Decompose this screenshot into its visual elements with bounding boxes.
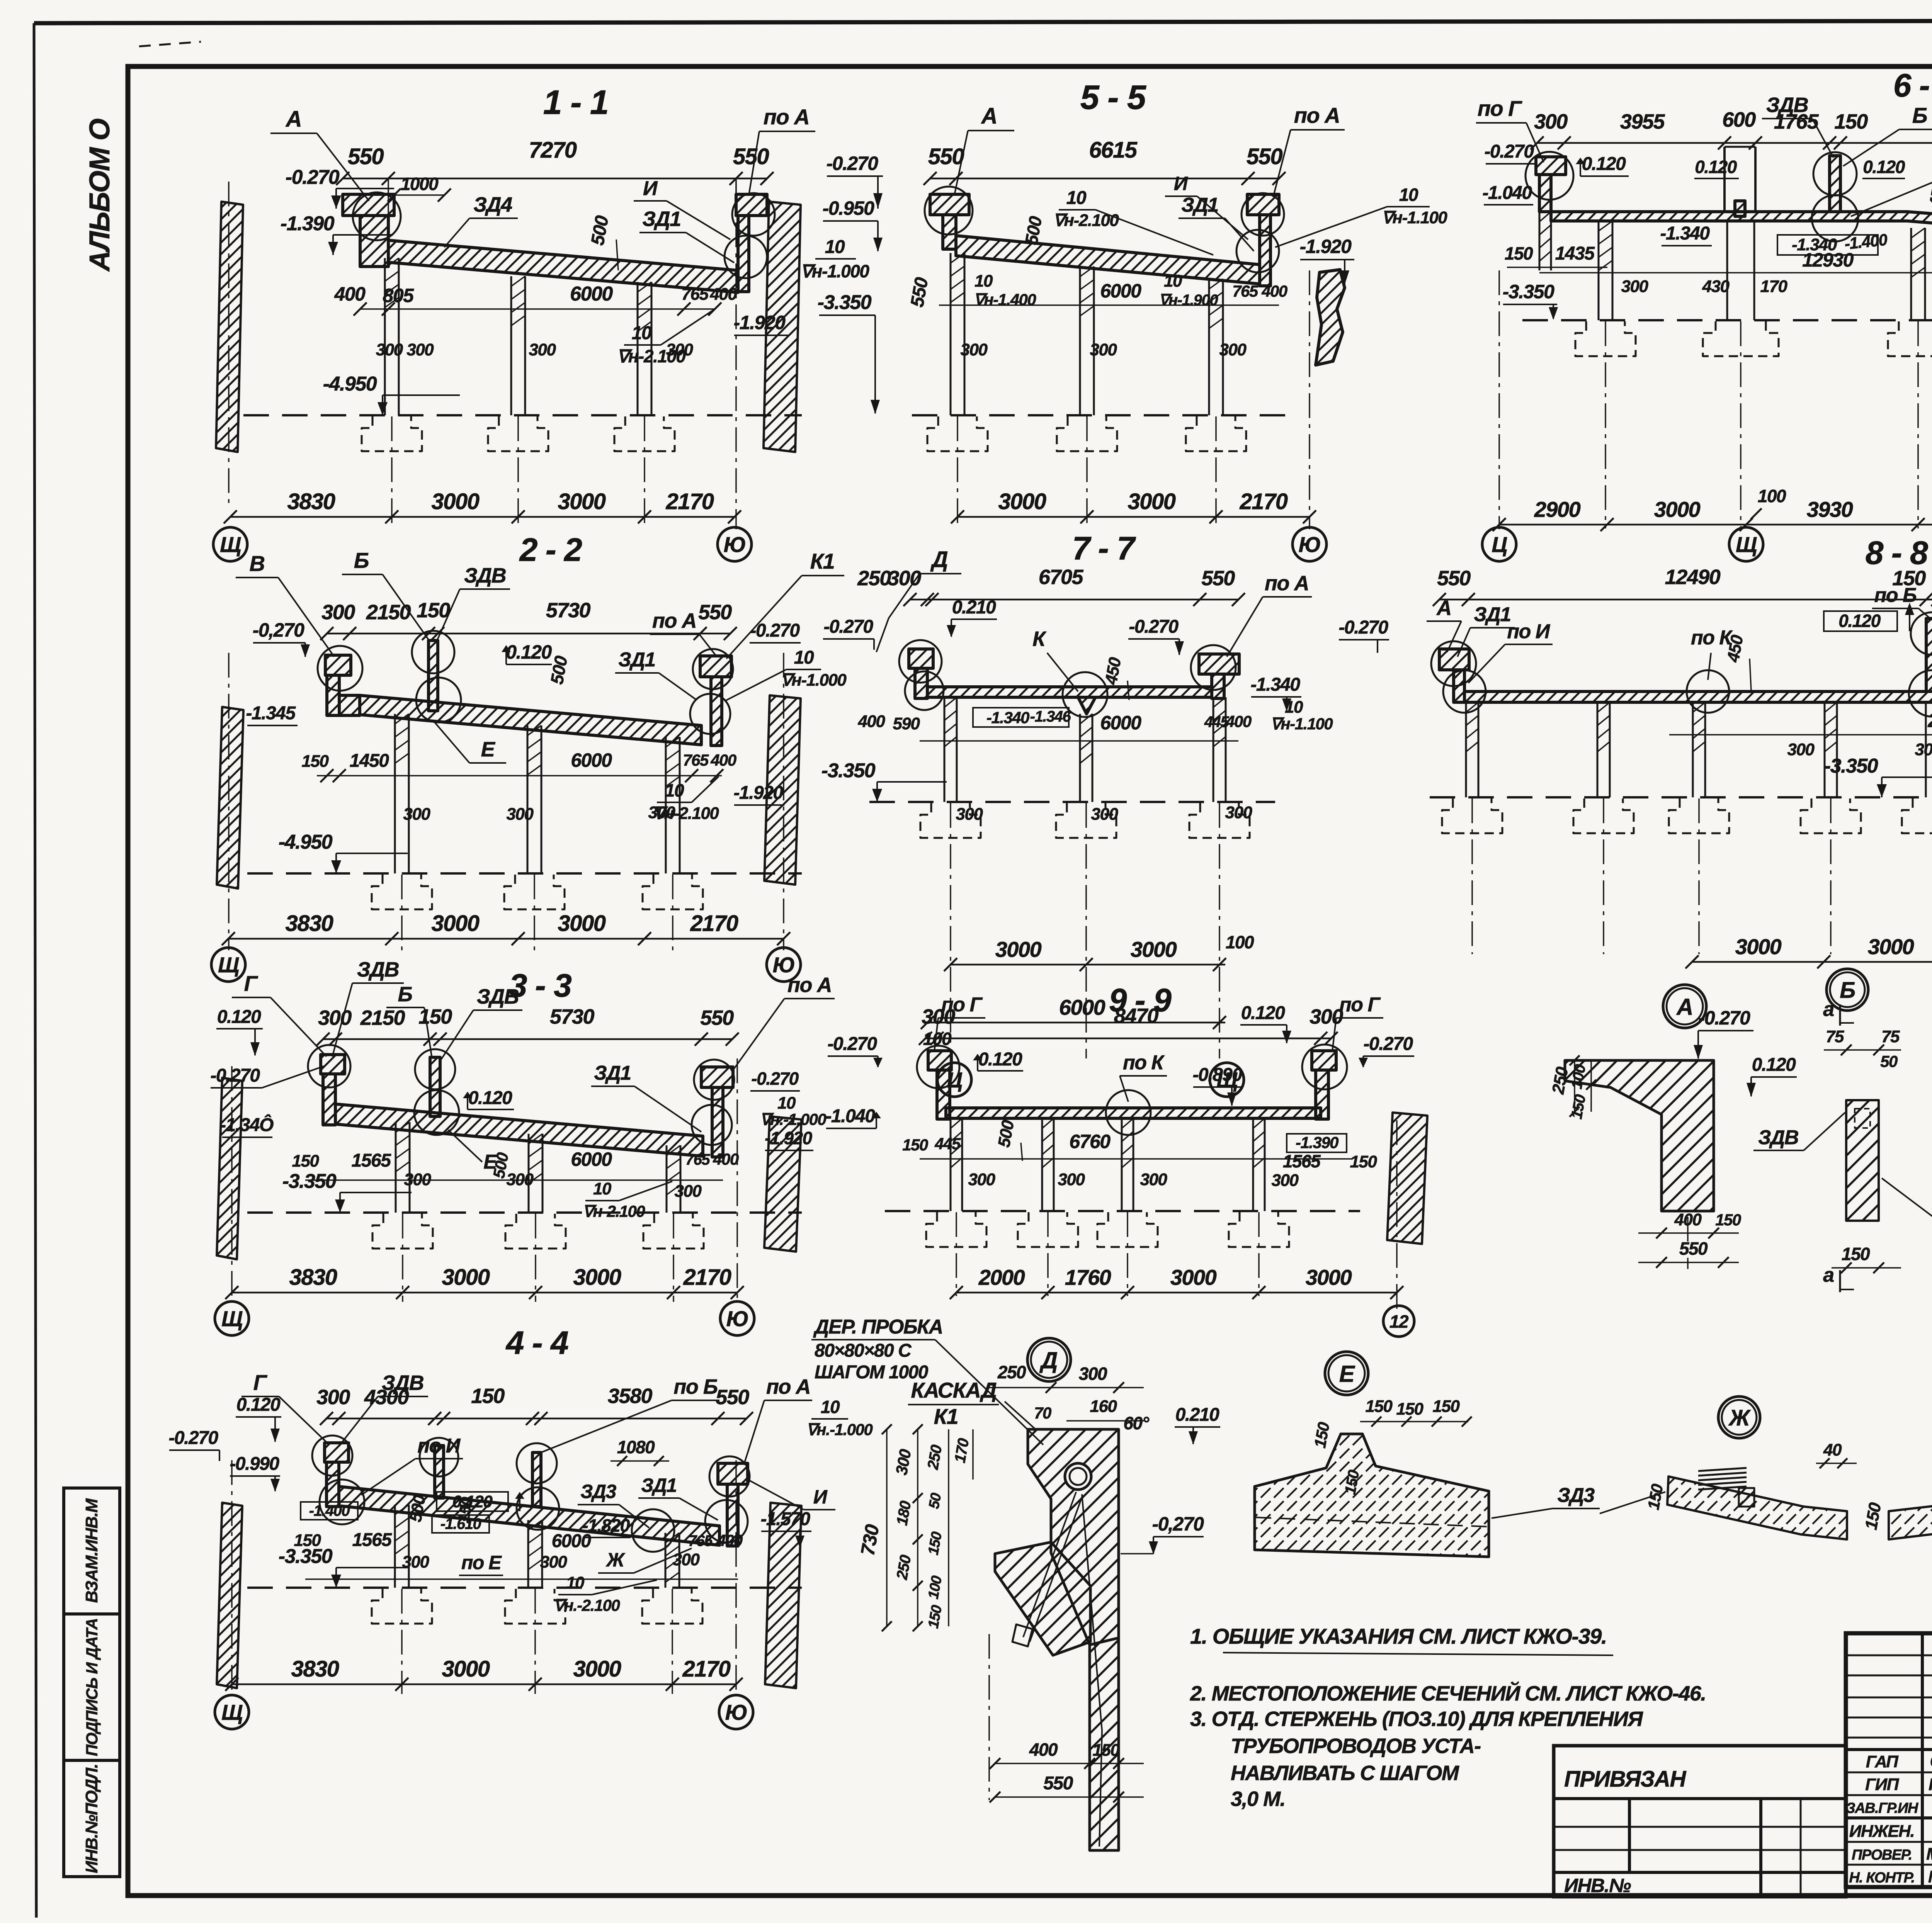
svg-text:-3.350: -3.350 bbox=[1503, 281, 1554, 302]
section 4-4 left lip bbox=[325, 1443, 349, 1462]
svg-text:100: 100 bbox=[1758, 486, 1786, 506]
svg-text:3. ОТД. СТЕРЖЕНЬ (ПОЗ.10) Д: 3. ОТД. СТЕРЖЕНЬ (ПОЗ.10) ДЛЯ КРЕПЛЕНИЯ bbox=[1190, 1707, 1643, 1731]
svg-text:5730: 5730 bbox=[550, 1005, 595, 1028]
svg-text:-4.950: -4.950 bbox=[323, 373, 377, 395]
section 1-1 right lip bbox=[736, 194, 767, 216]
section 6-6 axes bbox=[1605, 321, 1606, 528]
section 3-3 level -3.350 bbox=[340, 1192, 412, 1193]
svg-text:300 300: 300 300 bbox=[376, 340, 434, 359]
detail Zh body bbox=[1667, 1476, 1847, 1539]
section 8-8 ZDV wall 1 bbox=[1926, 618, 1932, 691]
section 7-7 columns bbox=[944, 697, 946, 802]
section 2-2 right lip bbox=[700, 656, 731, 677]
svg-text:765: 765 bbox=[1232, 282, 1259, 300]
svg-text:10: 10 bbox=[593, 1179, 612, 1198]
section 1-1 lip detail circles bbox=[353, 192, 401, 240]
section 1-1 column 2 bbox=[510, 276, 512, 415]
svg-text:ВЗАМ.ИНВ.М: ВЗАМ.ИНВ.М bbox=[82, 1498, 101, 1603]
svg-text:400: 400 bbox=[1225, 712, 1252, 730]
svg-text:-1.34Ô: -1.34Ô bbox=[220, 1114, 274, 1135]
svg-text:ЗДВ: ЗДВ bbox=[1758, 1126, 1798, 1149]
svg-text:300: 300 bbox=[402, 1553, 430, 1571]
section 6-6 footings bbox=[1575, 321, 1636, 356]
svg-text:3000: 3000 bbox=[558, 489, 605, 514]
section 3-3 left lip bbox=[321, 1055, 345, 1074]
svg-text:300: 300 bbox=[540, 1553, 568, 1571]
svg-text:2900: 2900 bbox=[1534, 497, 1581, 522]
section 8-8 left lip bbox=[1439, 649, 1469, 670]
svg-text:0.120: 0.120 bbox=[217, 1007, 261, 1027]
detail D circle bbox=[1027, 1338, 1071, 1381]
svg-text:МОРОЗОВА: МОРОЗОВА bbox=[1926, 1845, 1932, 1864]
svg-text:ШАГОМ 1000: ШАГОМ 1000 bbox=[815, 1362, 929, 1383]
section 5-5 footing 2 bbox=[1057, 416, 1117, 451]
section 4-4 0.120 boxed bbox=[437, 1492, 508, 1511]
svg-text:170: 170 bbox=[1760, 277, 1788, 296]
section 8-8 top dimensions bbox=[1439, 599, 1932, 601]
section 7-7 K wedge bbox=[1078, 697, 1095, 714]
svg-text:∇н-1.100: ∇н-1.100 bbox=[1270, 715, 1333, 733]
svg-text:8 - 8: 8 - 8 bbox=[1866, 535, 1928, 571]
svg-text:400: 400 bbox=[1029, 1740, 1058, 1760]
svg-text:3830: 3830 bbox=[285, 911, 333, 936]
svg-text:-0.270: -0.270 bbox=[1363, 1034, 1413, 1054]
section 6-6 ground line bbox=[1522, 319, 1932, 321]
section 7-7 footings bbox=[920, 803, 981, 838]
svg-text:60°: 60° bbox=[1123, 1413, 1149, 1433]
svg-text:-1.920: -1.920 bbox=[1300, 236, 1352, 257]
svg-text:по Б: по Б bbox=[673, 1375, 717, 1398]
axis circle Shch 2-2 bbox=[211, 948, 245, 982]
svg-text:5 - 5: 5 - 5 bbox=[1080, 78, 1146, 116]
axis circle Shch 6-6 bbox=[1729, 527, 1763, 561]
svg-text:2150: 2150 bbox=[360, 1006, 405, 1029]
svg-text:550: 550 bbox=[700, 1006, 734, 1029]
section 3-3 top dimensions bbox=[323, 1038, 732, 1040]
section 4-4 boxed -1.400 bbox=[301, 1502, 358, 1520]
svg-text:ГИП: ГИП bbox=[1865, 1775, 1900, 1794]
svg-text:-1.610: -1.610 bbox=[440, 1515, 481, 1532]
svg-text:1000: 1000 bbox=[401, 174, 439, 194]
svg-text:6 - 6: 6 - 6 bbox=[1893, 67, 1932, 104]
section 3-3 axes bbox=[402, 1214, 403, 1302]
svg-text:150: 150 bbox=[292, 1152, 320, 1170]
svg-text:∇н-1.900: ∇н-1.900 bbox=[1159, 292, 1218, 309]
svg-text:-3.350: -3.350 bbox=[279, 1545, 333, 1568]
svg-text:-3.350: -3.350 bbox=[1824, 755, 1878, 777]
svg-text:по А: по А bbox=[787, 973, 832, 997]
svg-text:Б: Б bbox=[1840, 978, 1855, 1003]
svg-text:550: 550 bbox=[928, 144, 964, 169]
svg-text:100: 100 bbox=[1226, 932, 1254, 952]
svg-text:-0,270: -0,270 bbox=[1152, 1513, 1204, 1535]
svg-text:10: 10 bbox=[1399, 185, 1418, 205]
svg-text:6000: 6000 bbox=[552, 1531, 592, 1551]
axis circle Shch 1-1 bbox=[213, 527, 247, 561]
section 2-2 right wall bbox=[764, 695, 801, 885]
section 4-4 top dimensions bbox=[327, 1418, 747, 1420]
svg-text:Щ: Щ bbox=[221, 1306, 243, 1331]
svg-text:Б: Б bbox=[1912, 103, 1927, 127]
detail Zh clamp bbox=[1698, 1468, 1747, 1471]
section 1-1 axes bbox=[391, 416, 393, 529]
svg-text:0.120: 0.120 bbox=[468, 1088, 512, 1108]
section 5-5 column 2 bbox=[1079, 267, 1081, 415]
svg-text:0.120: 0.120 bbox=[1863, 157, 1905, 177]
svg-text:300: 300 bbox=[529, 340, 556, 359]
svg-text:1435: 1435 bbox=[1555, 243, 1595, 264]
section 6-6 left leg bbox=[1539, 212, 1541, 270]
svg-text:10: 10 bbox=[821, 1397, 840, 1417]
section 6-6 top dimensions bbox=[1537, 142, 1932, 144]
svg-text:∇н.-1.000: ∇н.-1.000 bbox=[760, 1110, 827, 1128]
svg-text:6000: 6000 bbox=[570, 283, 613, 305]
svg-text:1565: 1565 bbox=[352, 1530, 393, 1550]
svg-text:3000: 3000 bbox=[1654, 497, 1701, 522]
svg-text:400: 400 bbox=[710, 285, 738, 304]
svg-text:12930: 12930 bbox=[1802, 249, 1854, 271]
section 4-4 columns bbox=[394, 1505, 396, 1588]
svg-text:ЗД4: ЗД4 bbox=[473, 193, 512, 216]
svg-text:по А: по А bbox=[1294, 103, 1340, 127]
svg-text:10: 10 bbox=[1285, 698, 1303, 717]
svg-text:2170: 2170 bbox=[1239, 489, 1287, 514]
svg-text:К1: К1 bbox=[810, 549, 835, 573]
svg-text:ЗД1: ЗД1 bbox=[1181, 194, 1218, 216]
svg-text:0.210: 0.210 bbox=[1175, 1405, 1219, 1425]
svg-text:300: 300 bbox=[316, 1386, 350, 1409]
svg-text:10: 10 bbox=[566, 1573, 585, 1592]
main title block frame bbox=[1846, 1633, 1932, 1887]
svg-text:1760: 1760 bbox=[1065, 1265, 1111, 1289]
svg-text:150: 150 bbox=[1715, 1211, 1741, 1229]
svg-text:ИНВ.№ПОДЛ.: ИНВ.№ПОДЛ. bbox=[82, 1764, 101, 1873]
section 7-7 top dimensions bbox=[910, 599, 1238, 601]
svg-text:300: 300 bbox=[403, 805, 431, 824]
svg-text:40: 40 bbox=[1823, 1441, 1842, 1459]
section 6-6 columns bbox=[1598, 221, 1600, 320]
svg-text:1565: 1565 bbox=[352, 1150, 392, 1171]
svg-text:СМИРНОВ: СМИРНОВ bbox=[1930, 1751, 1932, 1771]
svg-text:∇н-1.100: ∇н-1.100 bbox=[1382, 208, 1448, 227]
svg-text:А: А bbox=[981, 104, 997, 129]
title block sig columns bbox=[1921, 1633, 1924, 1887]
svg-text:∇н-1.000: ∇н-1.000 bbox=[781, 671, 847, 690]
stamp strip cells bbox=[64, 1488, 120, 1614]
svg-text:75: 75 bbox=[1826, 1027, 1844, 1046]
svg-text:3000: 3000 bbox=[1131, 937, 1177, 961]
svg-text:∇н-1.400: ∇н-1.400 bbox=[974, 290, 1036, 309]
section 3-3 right lip bbox=[701, 1067, 733, 1087]
section 2-2 level -4.950 bbox=[336, 853, 408, 854]
svg-text:ЗД1: ЗД1 bbox=[1474, 603, 1510, 626]
svg-text:-0,270: -0,270 bbox=[253, 619, 304, 641]
svg-text:3000: 3000 bbox=[998, 489, 1046, 514]
section 5-5 slab bbox=[956, 236, 1260, 284]
svg-text:150: 150 bbox=[471, 1384, 505, 1408]
svg-text:3,0 М.: 3,0 М. bbox=[1231, 1787, 1285, 1811]
section 4-4 left wall bbox=[217, 1503, 242, 1688]
section 8-8 ground line bbox=[1430, 796, 1932, 798]
svg-text:К1: К1 bbox=[934, 1404, 958, 1429]
svg-text:Щ: Щ bbox=[221, 1700, 243, 1724]
detail E circle bbox=[1325, 1352, 1368, 1395]
section 7-7 axes bbox=[950, 803, 951, 1058]
svg-text:2. МЕСТОПОЛОЖЕНИЕ СЕЧЕНИЙ С: 2. МЕСТОПОЛОЖЕНИЕ СЕЧЕНИЙ СМ. ЛИСТ КЖО-4… bbox=[1190, 1681, 1706, 1705]
svg-text:-0.270: -0.270 bbox=[751, 1069, 799, 1089]
svg-text:-1.400: -1.400 bbox=[309, 1502, 350, 1519]
svg-text:3955: 3955 bbox=[1620, 110, 1665, 133]
svg-text:-4.950: -4.950 bbox=[279, 831, 333, 853]
svg-text:А: А bbox=[285, 107, 301, 132]
svg-text:2 - 2: 2 - 2 bbox=[519, 532, 582, 568]
section 4-4 level -3.350 bbox=[336, 1567, 408, 1568]
section 5-5 right lip bbox=[1247, 194, 1279, 215]
svg-text:5730: 5730 bbox=[546, 599, 591, 622]
section 5-5 top dimensions bbox=[930, 178, 1279, 180]
svg-text:10: 10 bbox=[794, 647, 814, 668]
detail E body bbox=[1255, 1434, 1489, 1557]
section 1-1 level -1.390 bbox=[333, 234, 393, 236]
svg-text:3830: 3830 bbox=[289, 1265, 337, 1290]
section 2-2 left wall bbox=[217, 707, 243, 888]
section 5-5 right wall fragment bbox=[1316, 270, 1345, 365]
svg-text:75: 75 bbox=[1881, 1027, 1900, 1046]
detail A body bbox=[1565, 1060, 1714, 1211]
axis circle Yu 5-5 bbox=[1293, 527, 1327, 561]
svg-text:по К: по К bbox=[1123, 1052, 1165, 1074]
svg-text:8470: 8470 bbox=[1114, 1004, 1159, 1028]
svg-text:2000: 2000 bbox=[978, 1265, 1025, 1289]
svg-text:ИНЖЕН.: ИНЖЕН. bbox=[1849, 1822, 1915, 1841]
section 8-8 24000 dim bbox=[1669, 734, 1932, 736]
svg-text:Б: Б bbox=[398, 983, 412, 1006]
section 8-8 footings bbox=[1442, 798, 1502, 833]
svg-text:550: 550 bbox=[348, 144, 384, 169]
svg-text:-3.350: -3.350 bbox=[282, 1170, 337, 1193]
section 1-1 column 1 bbox=[384, 258, 386, 415]
section 7-7 ground line bbox=[869, 801, 1275, 803]
section 1-1 left lip bbox=[343, 194, 394, 216]
section 9-9 sub dims bbox=[920, 1158, 1352, 1160]
svg-text:И: И bbox=[813, 1486, 828, 1508]
svg-text:12: 12 bbox=[1389, 1311, 1409, 1332]
svg-text:-1.920: -1.920 bbox=[734, 312, 786, 333]
svg-text:-3.350: -3.350 bbox=[818, 291, 872, 314]
section 9-9 columns bbox=[950, 1118, 952, 1211]
section 3-3 ground line bbox=[247, 1211, 802, 1214]
svg-text:250: 250 bbox=[857, 567, 891, 590]
svg-text:И: И bbox=[643, 177, 658, 200]
svg-text:Щ: Щ bbox=[218, 953, 239, 977]
section 1-1 dim 1000 bbox=[394, 194, 444, 196]
svg-text:150: 150 bbox=[1366, 1397, 1393, 1416]
kaskad body top bbox=[1028, 1429, 1119, 1645]
section 4-4 ZDV wall 2 bbox=[532, 1452, 541, 1507]
svg-text:по Г: по Г bbox=[1339, 994, 1381, 1016]
svg-text:1. ОБЩИЕ УКАЗАНИЯ СМ. ЛИСТ: 1. ОБЩИЕ УКАЗАНИЯ СМ. ЛИСТ КЖО-39. bbox=[1190, 1624, 1607, 1648]
section 1-1 level -4.950 bbox=[383, 394, 460, 396]
svg-text:-0.990: -0.990 bbox=[230, 1454, 279, 1474]
svg-text:Ю: Ю bbox=[724, 532, 746, 557]
axis circle 12 9-9 bbox=[1383, 1306, 1414, 1337]
svg-text:300: 300 bbox=[321, 601, 355, 624]
svg-text:300: 300 bbox=[507, 805, 534, 824]
svg-text:1450: 1450 bbox=[350, 751, 389, 771]
svg-text:3000: 3000 bbox=[558, 911, 605, 936]
svg-text:590: 590 bbox=[893, 714, 920, 733]
svg-text:1080: 1080 bbox=[617, 1437, 655, 1457]
svg-text:150: 150 bbox=[1842, 1244, 1870, 1264]
section 9-9 right wall bbox=[1387, 1113, 1427, 1244]
svg-text:0.120: 0.120 bbox=[1695, 157, 1737, 177]
svg-text:300: 300 bbox=[1310, 1005, 1343, 1028]
svg-text:по А: по А bbox=[1265, 572, 1309, 595]
svg-text:ЗД1: ЗД1 bbox=[618, 649, 655, 671]
section 1-1 footing 1 bbox=[362, 416, 422, 451]
section 4-4 right lip bbox=[718, 1463, 748, 1484]
svg-text:В: В bbox=[250, 551, 265, 576]
svg-text:-1.570: -1.570 bbox=[760, 1509, 810, 1529]
section 3-3 columns bbox=[395, 1122, 397, 1213]
svg-text:300: 300 bbox=[1272, 1171, 1299, 1190]
detail B top dims bbox=[1824, 1049, 1901, 1051]
axis circle Yu 4-4 bbox=[719, 1695, 753, 1729]
svg-text:3000: 3000 bbox=[442, 1656, 490, 1682]
svg-text:10: 10 bbox=[777, 1094, 796, 1113]
svg-text:300: 300 bbox=[1915, 740, 1932, 759]
svg-text:6000: 6000 bbox=[1100, 280, 1141, 302]
section 6-6 ZDV wall B bbox=[1830, 156, 1840, 212]
svg-text:2170: 2170 bbox=[665, 489, 714, 514]
title block sig rows bbox=[1846, 1772, 1932, 1774]
section 7-7 boxed level bbox=[973, 708, 1069, 727]
svg-text:150: 150 bbox=[302, 752, 329, 771]
svg-text:300: 300 bbox=[956, 805, 983, 824]
svg-text:3830: 3830 bbox=[291, 1656, 339, 1682]
section 7-7 sub dims bbox=[920, 740, 1238, 742]
axis circle Yu 3-3 bbox=[720, 1301, 754, 1335]
svg-text:300: 300 bbox=[666, 340, 694, 359]
svg-text:6760: 6760 bbox=[1069, 1131, 1111, 1152]
svg-text:-0.270: -0.270 bbox=[827, 1034, 877, 1054]
svg-text:ЗДВ: ЗДВ bbox=[464, 564, 506, 587]
svg-text:-0.950: -0.950 bbox=[823, 197, 874, 219]
svg-text:150: 150 bbox=[418, 1005, 452, 1028]
svg-text:3000: 3000 bbox=[1735, 934, 1782, 959]
svg-text:2170: 2170 bbox=[683, 1265, 731, 1290]
svg-text:2170: 2170 bbox=[682, 1656, 730, 1682]
section 2-2 axes bbox=[401, 875, 403, 950]
section 1-1 top dimensions bbox=[343, 178, 767, 180]
svg-text:ТРУБОПРОВОДОВ УСТА-: ТРУБОПРОВОДОВ УСТА- bbox=[1231, 1734, 1481, 1758]
axis circle Ts 6-6 bbox=[1482, 527, 1516, 561]
svg-text:И: И bbox=[1174, 173, 1188, 194]
section 5-5 ground line bbox=[912, 414, 1294, 416]
svg-text:∇н.-2.100: ∇н.-2.100 bbox=[554, 1596, 620, 1614]
svg-text:Ю: Ю bbox=[725, 1700, 747, 1724]
section 1-1 bottom dimension bbox=[230, 516, 735, 518]
svg-text:10: 10 bbox=[632, 323, 652, 343]
svg-text:ИНВ.№: ИНВ.№ bbox=[1564, 1875, 1631, 1896]
svg-text:550: 550 bbox=[1247, 144, 1283, 169]
svg-text:а: а bbox=[1823, 998, 1834, 1021]
section 4-4 footings bbox=[372, 1589, 432, 1624]
section 4-4 bottom dimension bbox=[232, 1683, 736, 1685]
svg-text:6000: 6000 bbox=[571, 1148, 612, 1170]
svg-text:550: 550 bbox=[1201, 567, 1235, 590]
section 4-4 boxed -1.610 bbox=[432, 1515, 489, 1533]
svg-text:400: 400 bbox=[1261, 282, 1287, 300]
svg-text:Е: Е bbox=[1339, 1361, 1355, 1387]
section 4-4 axes bbox=[401, 1589, 403, 1694]
svg-text:2170: 2170 bbox=[690, 911, 738, 936]
svg-text:Щ: Щ bbox=[220, 532, 241, 557]
svg-text:6705: 6705 bbox=[1039, 566, 1084, 589]
svg-text:ГАП: ГАП bbox=[1866, 1752, 1899, 1771]
svg-text:3580: 3580 bbox=[608, 1384, 653, 1408]
svg-text:ПОДПИСЬ И ДАТА: ПОДПИСЬ И ДАТА bbox=[83, 1619, 101, 1757]
svg-text:80×80×80 С: 80×80×80 С bbox=[815, 1340, 912, 1361]
svg-text:550: 550 bbox=[698, 601, 732, 624]
svg-text:300: 300 bbox=[675, 1182, 702, 1201]
svg-text:300: 300 bbox=[1787, 740, 1815, 759]
svg-text:-3.350: -3.350 bbox=[821, 759, 876, 782]
svg-text:-1.040: -1.040 bbox=[825, 1106, 875, 1126]
section 1-1 slab bbox=[388, 240, 738, 292]
svg-text:150: 150 bbox=[902, 1136, 928, 1154]
svg-text:по И: по И bbox=[1507, 620, 1550, 643]
svg-text:300: 300 bbox=[968, 1170, 996, 1189]
section 9-9 ground line bbox=[885, 1210, 1360, 1212]
svg-text:765: 765 bbox=[683, 751, 709, 769]
kaskad hole bbox=[1065, 1463, 1091, 1490]
section 1-1 left wall bbox=[216, 202, 243, 452]
svg-text:600: 600 bbox=[1722, 108, 1756, 131]
svg-text:АЛЬБОМ О: АЛЬБОМ О bbox=[83, 119, 116, 272]
section 5-5 sub dims bbox=[939, 304, 1279, 306]
svg-text:ПРОВЕР.: ПРОВЕР. bbox=[1852, 1847, 1912, 1863]
svg-text:300: 300 bbox=[961, 340, 988, 359]
svg-text:Н. КОНТР.: Н. КОНТР. bbox=[1849, 1870, 1914, 1886]
section 8-8 bottom dimension bbox=[1692, 961, 1932, 963]
svg-text:-1.340: -1.340 bbox=[1250, 674, 1300, 695]
svg-text:Г: Г bbox=[253, 1370, 268, 1395]
svg-text:Ц: Ц bbox=[1492, 532, 1507, 557]
section 7-7 right lip bbox=[1199, 654, 1239, 674]
svg-text:550: 550 bbox=[733, 144, 769, 169]
axis circle Shch 7-7 bbox=[1210, 1063, 1244, 1097]
detail A bottom dims bbox=[1638, 1232, 1739, 1234]
svg-text:10: 10 bbox=[665, 780, 684, 800]
section 9-9 po K circle bbox=[1106, 1090, 1151, 1135]
axis circle Shch 4-4 bbox=[215, 1695, 249, 1729]
svg-text:150: 150 bbox=[417, 599, 450, 622]
svg-text:3000: 3000 bbox=[442, 1265, 490, 1290]
section 4-4 ground line bbox=[247, 1587, 802, 1589]
section 3-3 ZDV wall bbox=[430, 1057, 440, 1116]
section 6-6 slab bbox=[1551, 212, 1932, 246]
axis circle Shch 3-3 bbox=[215, 1301, 249, 1335]
detail B bar bbox=[1846, 1100, 1879, 1221]
section 5-5 axes bbox=[957, 416, 958, 525]
svg-text:765: 765 bbox=[685, 1151, 710, 1168]
svg-text:НАВЛИВАТЬ С ШАГОМ: НАВЛИВАТЬ С ШАГОМ bbox=[1231, 1762, 1459, 1785]
section 5-5 bottom dimension bbox=[957, 516, 1310, 518]
svg-text:300: 300 bbox=[404, 1170, 432, 1189]
svg-text:-0.270: -0.270 bbox=[1484, 141, 1534, 162]
svg-text:Г: Г bbox=[244, 971, 259, 995]
